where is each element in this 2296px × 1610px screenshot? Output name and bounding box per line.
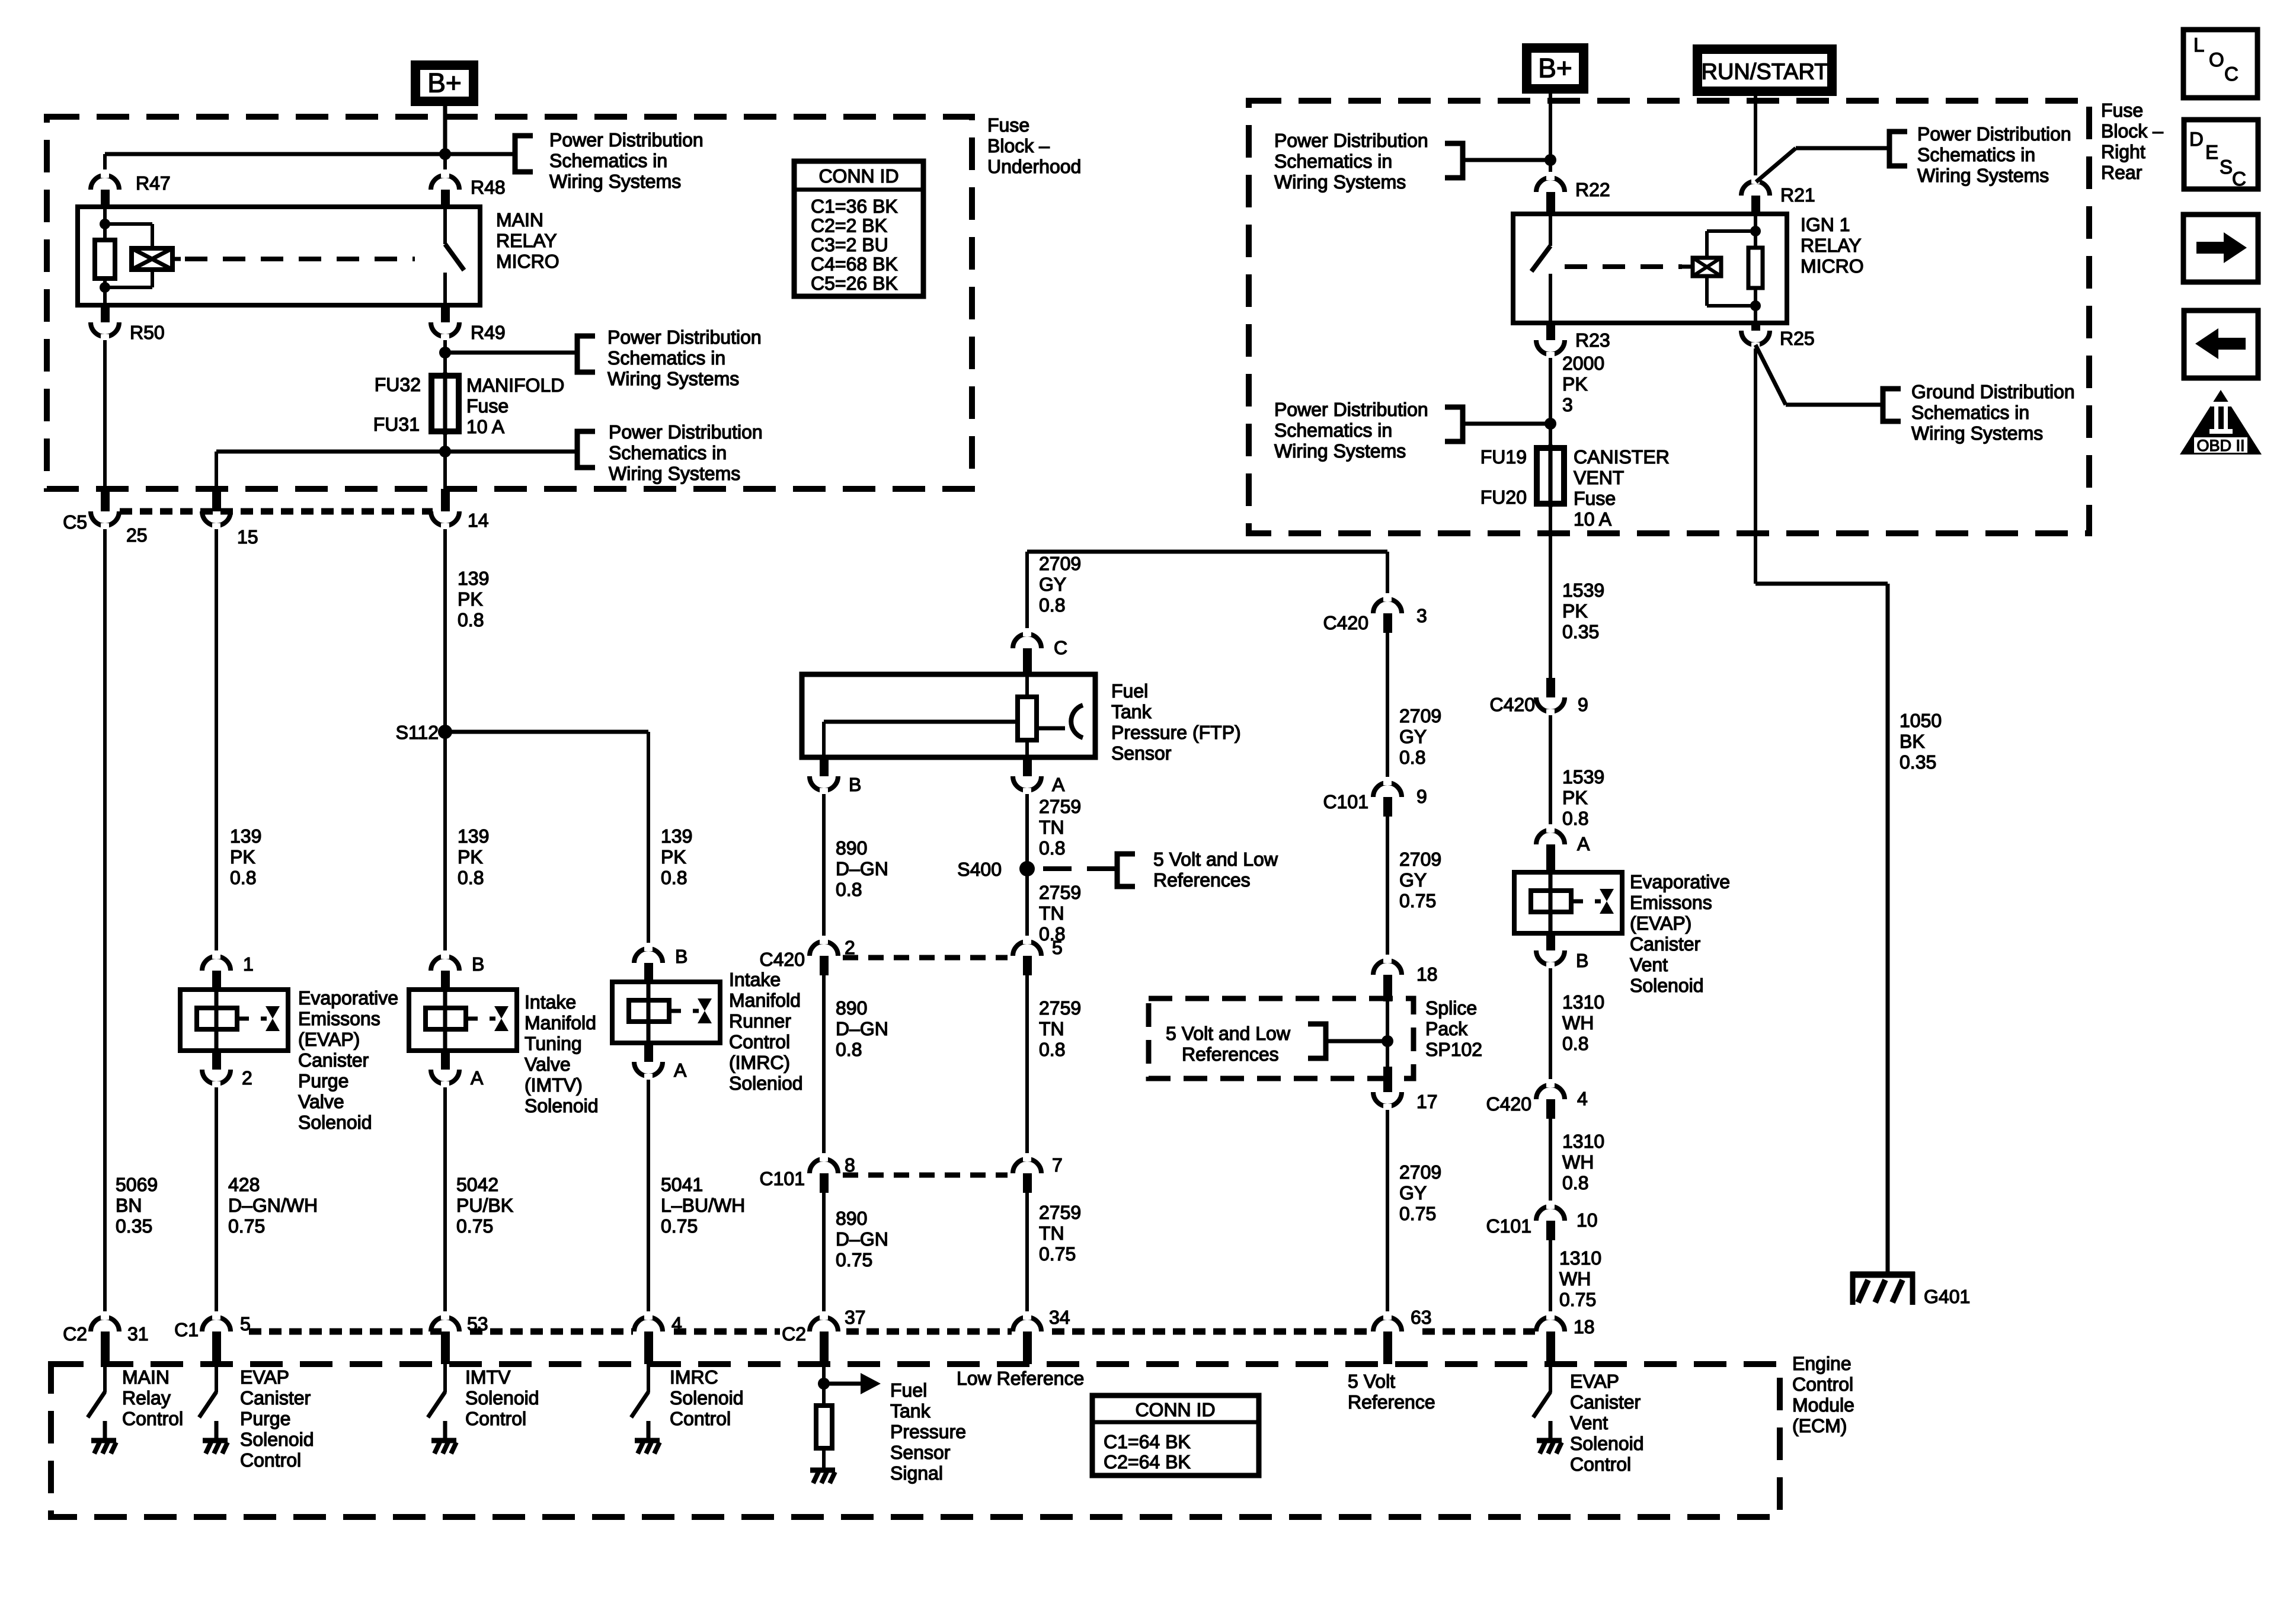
svg-text:S: S bbox=[2220, 156, 2233, 178]
svg-text:D–GN: D–GN bbox=[836, 1228, 888, 1250]
svg-text:C2=64 BK: C2=64 BK bbox=[1104, 1451, 1191, 1473]
svg-text:10 A: 10 A bbox=[1574, 508, 1612, 530]
svg-text:0.8: 0.8 bbox=[1039, 837, 1065, 859]
svg-text:37: 37 bbox=[845, 1307, 866, 1328]
svg-text:MICRO: MICRO bbox=[496, 251, 559, 272]
svg-text:Control: Control bbox=[1792, 1374, 1853, 1395]
svg-text:9: 9 bbox=[1416, 786, 1427, 807]
svg-text:FU19: FU19 bbox=[1480, 446, 1527, 468]
svg-text:G401: G401 bbox=[1924, 1286, 1970, 1307]
svg-text:1310: 1310 bbox=[1562, 1131, 1604, 1152]
svg-text:(IMRC): (IMRC) bbox=[729, 1052, 790, 1073]
svg-text:53: 53 bbox=[467, 1313, 488, 1334]
svg-text:0.8: 0.8 bbox=[1562, 808, 1588, 829]
svg-text:Sensor: Sensor bbox=[890, 1442, 951, 1463]
svg-text:0.8: 0.8 bbox=[836, 1039, 862, 1060]
svg-text:1: 1 bbox=[243, 953, 254, 975]
svg-text:Schematics in: Schematics in bbox=[609, 442, 727, 463]
svg-text:Solenoid: Solenoid bbox=[670, 1387, 744, 1409]
svg-text:Engine: Engine bbox=[1792, 1353, 1851, 1374]
svg-text:Schematics in: Schematics in bbox=[1274, 420, 1392, 441]
svg-text:Signal: Signal bbox=[890, 1462, 943, 1484]
svg-text:EVAP: EVAP bbox=[1570, 1371, 1619, 1392]
svg-text:D–GN: D–GN bbox=[836, 1018, 888, 1039]
svg-text:Rear: Rear bbox=[2101, 162, 2142, 183]
svg-text:B: B bbox=[472, 953, 484, 975]
svg-text:Purge: Purge bbox=[298, 1070, 348, 1092]
svg-text:Solenoid: Solenoid bbox=[1630, 975, 1704, 996]
svg-text:2709: 2709 bbox=[1039, 553, 1081, 574]
svg-text:Power Distribution: Power Distribution bbox=[1274, 399, 1428, 420]
svg-text:R21: R21 bbox=[1780, 184, 1815, 206]
svg-text:Fuse: Fuse bbox=[1574, 488, 1616, 509]
svg-text:E: E bbox=[2205, 141, 2218, 163]
svg-text:Solenoid: Solenoid bbox=[1570, 1433, 1644, 1454]
svg-text:Splice: Splice bbox=[1425, 997, 1477, 1019]
svg-text:FU32: FU32 bbox=[375, 374, 421, 395]
svg-text:PU/BK: PU/BK bbox=[456, 1195, 513, 1216]
svg-text:MANIFOLD: MANIFOLD bbox=[466, 375, 564, 396]
svg-text:890: 890 bbox=[836, 997, 867, 1019]
svg-text:(EVAP): (EVAP) bbox=[298, 1029, 360, 1050]
svg-text:Intake: Intake bbox=[525, 991, 576, 1013]
svg-text:Solenoid: Solenoid bbox=[240, 1429, 314, 1450]
svg-text:Low Reference: Low Reference bbox=[957, 1368, 1084, 1389]
svg-text:Vent: Vent bbox=[1570, 1412, 1608, 1433]
svg-text:Canister: Canister bbox=[1630, 933, 1701, 955]
svg-text:References: References bbox=[1153, 869, 1251, 891]
svg-text:Sensor: Sensor bbox=[1111, 742, 1172, 764]
svg-text:0.35: 0.35 bbox=[1562, 621, 1599, 642]
svg-text:Manifold: Manifold bbox=[525, 1012, 596, 1033]
svg-text:C3=2 BU: C3=2 BU bbox=[811, 234, 888, 255]
svg-text:Schematics in: Schematics in bbox=[607, 347, 725, 369]
svg-text:14: 14 bbox=[468, 510, 489, 531]
svg-text:A: A bbox=[674, 1060, 687, 1081]
svg-text:D–GN: D–GN bbox=[836, 858, 888, 879]
svg-text:A: A bbox=[1577, 833, 1590, 854]
svg-text:A: A bbox=[471, 1067, 484, 1089]
svg-text:C101: C101 bbox=[760, 1168, 805, 1189]
svg-text:890: 890 bbox=[836, 1208, 867, 1229]
svg-text:Valve: Valve bbox=[525, 1054, 571, 1075]
svg-text:Canister: Canister bbox=[298, 1049, 369, 1071]
svg-text:0.75: 0.75 bbox=[456, 1215, 493, 1237]
svg-text:17: 17 bbox=[1416, 1091, 1438, 1112]
svg-text:(EVAP): (EVAP) bbox=[1630, 913, 1691, 934]
svg-text:MAIN: MAIN bbox=[496, 209, 543, 231]
svg-text:B+: B+ bbox=[1538, 53, 1572, 84]
svg-text:Fuel: Fuel bbox=[890, 1379, 927, 1401]
svg-text:10 A: 10 A bbox=[466, 416, 505, 437]
svg-text:Tuning: Tuning bbox=[525, 1033, 582, 1054]
svg-text:0.8: 0.8 bbox=[1039, 594, 1065, 616]
svg-text:FU20: FU20 bbox=[1480, 486, 1527, 508]
svg-text:R23: R23 bbox=[1575, 329, 1610, 351]
svg-text:Wiring Systems: Wiring Systems bbox=[1274, 171, 1406, 193]
svg-text:GY: GY bbox=[1399, 1182, 1427, 1204]
svg-text:(ECM): (ECM) bbox=[1792, 1415, 1847, 1436]
svg-text:0.8: 0.8 bbox=[1039, 1039, 1065, 1060]
svg-text:2709: 2709 bbox=[1399, 705, 1441, 726]
svg-text:890: 890 bbox=[836, 837, 867, 859]
svg-text:Relay: Relay bbox=[122, 1387, 171, 1409]
svg-text:Fuel: Fuel bbox=[1111, 680, 1148, 702]
svg-text:O: O bbox=[2209, 49, 2224, 71]
svg-text:Canister: Canister bbox=[240, 1387, 311, 1409]
svg-text:18: 18 bbox=[1416, 964, 1438, 985]
svg-text:PK: PK bbox=[1562, 373, 1588, 395]
svg-text:R22: R22 bbox=[1575, 179, 1610, 200]
svg-text:Solenoid: Solenoid bbox=[525, 1095, 599, 1116]
svg-text:C101: C101 bbox=[1486, 1215, 1532, 1237]
svg-text:0.8: 0.8 bbox=[458, 867, 484, 888]
svg-text:B: B bbox=[849, 774, 861, 795]
svg-text:2759: 2759 bbox=[1039, 1202, 1081, 1223]
svg-text:IGN 1: IGN 1 bbox=[1801, 214, 1850, 235]
svg-text:Evaporative: Evaporative bbox=[1630, 871, 1730, 892]
svg-text:PK: PK bbox=[458, 588, 483, 610]
svg-text:C5: C5 bbox=[63, 511, 87, 533]
svg-text:C: C bbox=[1054, 637, 1067, 658]
svg-text:Module: Module bbox=[1792, 1394, 1854, 1416]
svg-text:Power Distribution: Power Distribution bbox=[1274, 130, 1428, 151]
svg-text:CONN ID: CONN ID bbox=[1135, 1399, 1215, 1420]
svg-text:C5=26 BK: C5=26 BK bbox=[811, 273, 898, 294]
svg-text:Right: Right bbox=[2101, 141, 2145, 162]
svg-text:Block –: Block – bbox=[2101, 120, 2163, 142]
svg-text:EVAP: EVAP bbox=[240, 1366, 289, 1388]
svg-text:BK: BK bbox=[1900, 731, 1925, 752]
svg-text:TN: TN bbox=[1039, 1222, 1064, 1244]
svg-text:18: 18 bbox=[1574, 1316, 1595, 1337]
svg-text:C4=68 BK: C4=68 BK bbox=[811, 254, 898, 275]
svg-text:FU31: FU31 bbox=[373, 414, 420, 435]
svg-text:Schematics in: Schematics in bbox=[549, 150, 667, 171]
svg-text:Power Distribution: Power Distribution bbox=[609, 421, 763, 443]
svg-text:RELAY: RELAY bbox=[496, 230, 557, 251]
svg-text:31: 31 bbox=[127, 1323, 149, 1345]
svg-text:0.35: 0.35 bbox=[1900, 751, 1936, 773]
svg-text:D: D bbox=[2189, 128, 2204, 150]
svg-text:0.75: 0.75 bbox=[661, 1215, 698, 1237]
svg-text:Wiring Systems: Wiring Systems bbox=[549, 171, 681, 192]
svg-text:C420: C420 bbox=[1490, 694, 1536, 715]
svg-text:Wiring Systems: Wiring Systems bbox=[607, 368, 739, 389]
svg-text:B: B bbox=[675, 946, 687, 967]
svg-text:15: 15 bbox=[237, 526, 258, 548]
svg-text:0.75: 0.75 bbox=[1039, 1243, 1076, 1265]
svg-text:1539: 1539 bbox=[1562, 766, 1604, 788]
svg-text:Control: Control bbox=[670, 1408, 731, 1429]
svg-text:5: 5 bbox=[240, 1313, 251, 1334]
svg-text:RUN/START: RUN/START bbox=[1702, 60, 1828, 85]
svg-text:0.8: 0.8 bbox=[230, 867, 256, 888]
svg-text:Solenoid: Solenoid bbox=[298, 1112, 372, 1133]
svg-text:139: 139 bbox=[230, 825, 261, 847]
svg-text:Power Distribution: Power Distribution bbox=[549, 129, 703, 151]
svg-text:Schematics in: Schematics in bbox=[1917, 144, 2035, 165]
svg-text:2709: 2709 bbox=[1399, 1161, 1441, 1183]
svg-text:B+: B+ bbox=[427, 68, 462, 98]
svg-text:Fuse: Fuse bbox=[2101, 100, 2143, 121]
svg-text:C1: C1 bbox=[174, 1319, 199, 1340]
svg-text:B: B bbox=[1576, 950, 1588, 971]
svg-text:Ground Distribution: Ground Distribution bbox=[1911, 381, 2075, 402]
svg-text:C1=36 BK: C1=36 BK bbox=[811, 196, 898, 217]
svg-text:SP102: SP102 bbox=[1425, 1039, 1482, 1060]
svg-text:Wiring Systems: Wiring Systems bbox=[609, 463, 740, 484]
svg-text:5 Volt: 5 Volt bbox=[1348, 1371, 1395, 1392]
svg-text:(IMTV): (IMTV) bbox=[525, 1074, 583, 1096]
svg-text:2759: 2759 bbox=[1039, 796, 1081, 817]
svg-text:Evaporative: Evaporative bbox=[298, 987, 398, 1009]
svg-text:0.8: 0.8 bbox=[836, 879, 862, 900]
svg-text:2759: 2759 bbox=[1039, 882, 1081, 903]
svg-text:139: 139 bbox=[458, 568, 489, 589]
svg-text:Wiring Systems: Wiring Systems bbox=[1911, 422, 2043, 444]
svg-text:3: 3 bbox=[1562, 394, 1573, 415]
svg-text:WH: WH bbox=[1562, 1012, 1594, 1033]
svg-text:C420: C420 bbox=[760, 949, 805, 970]
svg-text:C101: C101 bbox=[1323, 791, 1369, 812]
svg-text:2: 2 bbox=[242, 1067, 252, 1089]
svg-text:C2: C2 bbox=[782, 1323, 806, 1345]
svg-text:2709: 2709 bbox=[1399, 849, 1441, 870]
svg-text:Fuse: Fuse bbox=[987, 114, 1029, 136]
svg-text:428: 428 bbox=[228, 1174, 260, 1195]
svg-text:RELAY: RELAY bbox=[1801, 235, 1862, 256]
svg-text:5: 5 bbox=[1052, 937, 1063, 958]
svg-text:GY: GY bbox=[1039, 574, 1066, 595]
svg-text:Tank: Tank bbox=[1111, 701, 1152, 722]
svg-text:0.8: 0.8 bbox=[1562, 1033, 1588, 1054]
svg-text:0.8: 0.8 bbox=[1399, 747, 1425, 768]
svg-text:GY: GY bbox=[1399, 726, 1427, 747]
svg-text:R25: R25 bbox=[1780, 328, 1815, 349]
svg-text:Schematics in: Schematics in bbox=[1274, 151, 1392, 172]
svg-text:5041: 5041 bbox=[661, 1174, 703, 1195]
svg-text:25: 25 bbox=[126, 524, 148, 546]
svg-text:TN: TN bbox=[1039, 1018, 1064, 1039]
svg-text:0.8: 0.8 bbox=[1562, 1172, 1588, 1193]
svg-text:C420: C420 bbox=[1486, 1093, 1532, 1115]
svg-text:5069: 5069 bbox=[116, 1174, 158, 1195]
svg-text:C: C bbox=[2232, 168, 2246, 190]
svg-text:5 Volt and Low: 5 Volt and Low bbox=[1166, 1023, 1291, 1044]
svg-text:Solenoid: Solenoid bbox=[465, 1387, 539, 1409]
svg-text:Valve: Valve bbox=[298, 1091, 344, 1112]
svg-text:1310: 1310 bbox=[1559, 1247, 1601, 1269]
svg-text:63: 63 bbox=[1411, 1307, 1432, 1328]
svg-text:2759: 2759 bbox=[1039, 997, 1081, 1019]
svg-text:CONN ID: CONN ID bbox=[818, 165, 898, 187]
svg-text:0.35: 0.35 bbox=[116, 1215, 152, 1237]
svg-text:5 Volt and Low: 5 Volt and Low bbox=[1153, 849, 1278, 870]
svg-text:0.75: 0.75 bbox=[836, 1249, 872, 1270]
svg-text:Wiring Systems: Wiring Systems bbox=[1274, 440, 1406, 462]
svg-text:L: L bbox=[2193, 34, 2204, 56]
svg-text:Control: Control bbox=[1570, 1454, 1631, 1475]
svg-text:0.8: 0.8 bbox=[661, 867, 687, 888]
svg-text:Underhood: Underhood bbox=[987, 156, 1081, 177]
svg-text:Tank: Tank bbox=[890, 1400, 931, 1422]
svg-text:R47: R47 bbox=[136, 172, 171, 194]
svg-text:IMRC: IMRC bbox=[670, 1366, 718, 1388]
svg-text:Manifold: Manifold bbox=[729, 990, 801, 1011]
svg-text:MAIN: MAIN bbox=[122, 1366, 170, 1388]
svg-text:BN: BN bbox=[116, 1195, 142, 1216]
svg-text:139: 139 bbox=[661, 825, 692, 847]
svg-text:C1=64 BK: C1=64 BK bbox=[1104, 1431, 1191, 1452]
svg-text:C420: C420 bbox=[1323, 612, 1369, 633]
svg-text:Emissons: Emissons bbox=[1630, 892, 1712, 913]
svg-text:WH: WH bbox=[1559, 1268, 1591, 1289]
svg-text:TN: TN bbox=[1039, 817, 1064, 838]
svg-text:L–BU/WH: L–BU/WH bbox=[661, 1195, 745, 1216]
svg-text:VENT: VENT bbox=[1574, 467, 1624, 488]
svg-text:WH: WH bbox=[1562, 1151, 1594, 1173]
svg-text:OBD II: OBD II bbox=[2196, 437, 2244, 454]
svg-text:0.75: 0.75 bbox=[1559, 1289, 1596, 1310]
svg-text:1539: 1539 bbox=[1562, 580, 1604, 601]
svg-text:2000: 2000 bbox=[1562, 353, 1604, 374]
svg-text:Control: Control bbox=[122, 1408, 183, 1429]
svg-text:Power Distribution: Power Distribution bbox=[607, 327, 762, 348]
svg-text:Power Distribution: Power Distribution bbox=[1917, 123, 2071, 145]
svg-text:9: 9 bbox=[1578, 694, 1588, 715]
svg-text:PK: PK bbox=[230, 846, 255, 868]
svg-text:Pressure (FTP): Pressure (FTP) bbox=[1111, 722, 1241, 743]
svg-text:34: 34 bbox=[1049, 1307, 1070, 1328]
svg-text:R50: R50 bbox=[130, 322, 165, 343]
svg-text:TN: TN bbox=[1039, 902, 1064, 924]
svg-text:Pack: Pack bbox=[1425, 1018, 1468, 1039]
svg-text:0.75: 0.75 bbox=[1399, 1203, 1436, 1224]
svg-text:4: 4 bbox=[671, 1313, 682, 1334]
svg-text:0.8: 0.8 bbox=[458, 609, 484, 630]
svg-text:Emissons: Emissons bbox=[298, 1008, 380, 1029]
svg-text:0.75: 0.75 bbox=[228, 1215, 265, 1237]
svg-text:S400: S400 bbox=[957, 859, 1002, 880]
svg-text:C2: C2 bbox=[63, 1323, 87, 1345]
svg-text:PK: PK bbox=[661, 846, 686, 868]
svg-text:139: 139 bbox=[458, 825, 489, 847]
svg-text:Wiring Systems: Wiring Systems bbox=[1917, 165, 2049, 186]
svg-text:4: 4 bbox=[1577, 1088, 1588, 1109]
svg-text:CANISTER: CANISTER bbox=[1574, 446, 1670, 468]
svg-text:Pressure: Pressure bbox=[890, 1421, 966, 1442]
svg-text:C2=2 BK: C2=2 BK bbox=[811, 215, 887, 236]
svg-text:S112: S112 bbox=[396, 722, 439, 743]
svg-text:Runner: Runner bbox=[729, 1010, 791, 1032]
svg-text:1050: 1050 bbox=[1900, 710, 1942, 731]
svg-text:GY: GY bbox=[1399, 869, 1427, 891]
svg-text:References: References bbox=[1182, 1044, 1279, 1065]
svg-text:7: 7 bbox=[1052, 1154, 1063, 1176]
svg-text:PK: PK bbox=[1562, 787, 1588, 808]
svg-text:D–GN/WH: D–GN/WH bbox=[228, 1195, 318, 1216]
svg-text:Reference: Reference bbox=[1348, 1391, 1435, 1413]
svg-text:1310: 1310 bbox=[1562, 991, 1604, 1013]
svg-text:Soleniod: Soleniod bbox=[729, 1073, 803, 1094]
svg-text:R49: R49 bbox=[471, 322, 506, 343]
svg-text:Vent: Vent bbox=[1630, 954, 1668, 975]
svg-text:Schematics in: Schematics in bbox=[1911, 402, 2029, 423]
svg-text:Control: Control bbox=[465, 1408, 526, 1429]
svg-text:3: 3 bbox=[1416, 605, 1427, 626]
svg-text:Canister: Canister bbox=[1570, 1391, 1641, 1413]
svg-text:MICRO: MICRO bbox=[1801, 255, 1864, 277]
svg-text:PK: PK bbox=[1562, 600, 1588, 622]
svg-text:Block –: Block – bbox=[987, 135, 1050, 156]
svg-text:10: 10 bbox=[1576, 1209, 1598, 1231]
svg-text:C: C bbox=[2224, 63, 2239, 85]
svg-text:A: A bbox=[1052, 774, 1065, 795]
svg-text:Control: Control bbox=[240, 1449, 301, 1471]
svg-text:Purge: Purge bbox=[240, 1408, 290, 1429]
svg-text:Control: Control bbox=[729, 1031, 790, 1052]
svg-text:Intake: Intake bbox=[729, 969, 781, 990]
svg-text:R48: R48 bbox=[471, 177, 506, 198]
svg-text:Fuse: Fuse bbox=[466, 395, 509, 417]
svg-text:IMTV: IMTV bbox=[465, 1366, 511, 1388]
svg-text:0.75: 0.75 bbox=[1399, 890, 1436, 911]
svg-text:PK: PK bbox=[458, 846, 483, 868]
svg-text:5042: 5042 bbox=[456, 1174, 498, 1195]
